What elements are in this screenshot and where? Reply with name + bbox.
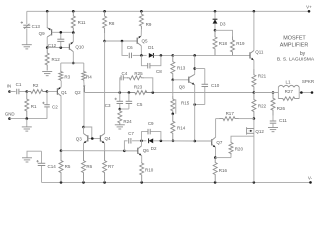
resistor R14 bbox=[171, 114, 175, 141]
node C3 top bbox=[119, 91, 122, 94]
svg-text:R26: R26 bbox=[277, 106, 286, 111]
svg-text:R17: R17 bbox=[226, 111, 235, 116]
wire R4 to Q2 bbox=[83, 81, 85, 87]
resistor R25 bbox=[127, 76, 144, 80]
svg-text:R11: R11 bbox=[78, 20, 86, 25]
wire R8 node to Q5 base bbox=[105, 40, 138, 42]
wire C3-C5 bottom link bbox=[120, 108, 129, 110]
node R14 bottom bbox=[172, 140, 175, 143]
wire D1 to node bbox=[153, 54, 172, 56]
wire to Q1 base bbox=[47, 91, 57, 93]
svg-text:SPKR: SPKR bbox=[302, 79, 315, 84]
svg-text:R9: R9 bbox=[146, 22, 152, 27]
transistor Q5 bbox=[136, 38, 138, 44]
wire Q2 collector down bbox=[83, 92, 85, 127]
resistor R11 bbox=[71, 11, 75, 32]
node Q7 emitter / R16 top bbox=[214, 156, 217, 159]
wire R17 line bbox=[216, 118, 221, 120]
svg-text:Q7: Q7 bbox=[216, 140, 223, 145]
resistor R3 bbox=[59, 71, 63, 82]
svg-text:Q4: Q4 bbox=[104, 136, 111, 141]
node R11 bottom bbox=[72, 31, 75, 34]
svg-text:GND: GND bbox=[5, 112, 15, 117]
wire V- rail bbox=[42, 181, 311, 183]
svg-text:C2: C2 bbox=[52, 105, 58, 110]
node C10 top tap bbox=[193, 67, 196, 70]
capacitor C11 bbox=[272, 116, 274, 121]
resistor R2 bbox=[27, 90, 47, 94]
svg-text:R21: R21 bbox=[258, 73, 267, 78]
wire GND bus bbox=[10, 118, 48, 120]
svg-text:R4: R4 bbox=[86, 74, 92, 79]
wire Q1 collector to R3 bbox=[60, 81, 62, 87]
svg-text:R1: R1 bbox=[31, 104, 37, 109]
svg-text:R5: R5 bbox=[65, 164, 71, 169]
svg-text:R14: R14 bbox=[177, 126, 186, 131]
wire Q8 collector up bbox=[194, 55, 196, 74]
svg-text:C12: C12 bbox=[48, 43, 57, 48]
wire mirror jog bbox=[84, 127, 92, 139]
resistor R22 bbox=[252, 93, 256, 119]
transistor Q12 bbox=[246, 127, 248, 134]
node Q10 collector / R3 R4 split bbox=[72, 62, 75, 65]
node V+ rail junction dots bbox=[46, 10, 49, 13]
node R2-C2-Q1 bbox=[46, 90, 49, 93]
svg-text:V+: V+ bbox=[306, 5, 312, 10]
resistor R20 bbox=[230, 153, 232, 158]
node output junction bbox=[300, 91, 303, 94]
wire tail bias line bbox=[61, 150, 138, 152]
svg-text:C10: C10 bbox=[211, 83, 220, 88]
wire Q10 collector down bbox=[72, 52, 74, 63]
wire Q3-Q4 base link bbox=[88, 138, 101, 140]
node R26 top bbox=[272, 91, 275, 94]
capacitor C9 bypass loop bbox=[142, 132, 148, 141]
capacitor C1 bbox=[16, 89, 18, 95]
node IN terminal bbox=[8, 90, 11, 93]
wire C4-R25 branch bbox=[120, 78, 121, 93]
transistor Q4 bbox=[99, 135, 101, 141]
svg-text:R16: R16 bbox=[219, 168, 228, 173]
wire R20 top to Q12 source bbox=[231, 136, 254, 141]
wire Q9 emitter from V+ bbox=[46, 11, 48, 28]
resistor R17 bbox=[220, 117, 239, 121]
wire C6 to D1 node bbox=[133, 54, 147, 56]
wire Q3 collector up bbox=[83, 127, 85, 134]
wire Q6 collector up bbox=[141, 141, 143, 146]
wire Q6 emitter down bbox=[141, 156, 143, 162]
wire C7 to Q6 node bbox=[132, 140, 146, 142]
resistor R8 bbox=[103, 11, 107, 33]
ground below R12 bbox=[42, 71, 52, 73]
node V+ terminal bbox=[308, 10, 311, 13]
node C12 bottom bbox=[60, 46, 63, 49]
svg-text:Q5: Q5 bbox=[141, 38, 148, 43]
node C3 bottom bbox=[119, 108, 122, 111]
wire Q5 emitter down bbox=[140, 46, 142, 56]
transistor Q6 bbox=[137, 148, 139, 154]
node mirror bases bbox=[91, 137, 94, 140]
node R22 bottom / drain bbox=[253, 117, 256, 120]
ground below R24 bbox=[115, 124, 125, 126]
wire Q10 base link bbox=[47, 47, 69, 49]
resistor R12 bbox=[45, 48, 49, 71]
ground below R1 bbox=[22, 126, 32, 128]
wire Q9 collector down bbox=[46, 37, 48, 48]
svg-text:R22: R22 bbox=[258, 103, 267, 108]
svg-text:R18: R18 bbox=[219, 41, 228, 46]
wire to R4 bbox=[73, 62, 84, 64]
wire R20 bottom link bbox=[215, 157, 231, 159]
resistor R24 bbox=[118, 109, 122, 125]
svg-text:B. S. LAGUISMA: B. S. LAGUISMA bbox=[277, 56, 315, 62]
inductor L1 with R27 box bbox=[277, 87, 279, 99]
resistor R7 bbox=[103, 151, 107, 183]
svg-text:Q8: Q8 bbox=[179, 84, 186, 89]
ground below C11 bbox=[268, 127, 278, 129]
svg-text:C14: C14 bbox=[48, 164, 57, 169]
wire Q12 drain-source column bbox=[253, 119, 255, 183]
node Q1 emitter / R5 top bbox=[60, 149, 63, 152]
resistor R15 bbox=[171, 96, 175, 114]
svg-text:R10: R10 bbox=[145, 167, 154, 172]
wire C6 branch bbox=[122, 41, 128, 55]
resistor R19 bbox=[231, 37, 235, 56]
svg-text:V-: V- bbox=[308, 176, 313, 181]
wire D3 to node bbox=[214, 24, 216, 31]
svg-text:R27: R27 bbox=[285, 89, 294, 94]
svg-text:D1: D1 bbox=[148, 45, 154, 50]
svg-text:C9: C9 bbox=[148, 121, 154, 126]
svg-text:R15: R15 bbox=[181, 101, 190, 106]
svg-text:Q10: Q10 bbox=[75, 44, 84, 49]
node R13 bottom / Q8 base bbox=[172, 79, 175, 82]
node Q7 base bbox=[193, 140, 196, 143]
resistor R4 bbox=[82, 71, 86, 82]
svg-text:R8: R8 bbox=[109, 21, 115, 26]
wire C1 to node bbox=[19, 91, 27, 93]
svg-text:Q11: Q11 bbox=[255, 49, 264, 54]
svg-text:R19: R19 bbox=[236, 41, 245, 46]
node Q2 collector / mirror bbox=[82, 126, 85, 129]
svg-text:C6: C6 bbox=[127, 45, 133, 50]
wire Q7 base bbox=[195, 140, 212, 142]
wire Q8 emitter down bbox=[194, 85, 196, 141]
node SPKR terminal bbox=[311, 91, 314, 94]
node Q6 collector bbox=[140, 140, 143, 143]
svg-text:C8: C8 bbox=[156, 69, 162, 74]
svg-text:C1: C1 bbox=[16, 82, 22, 87]
wire Q10 emitter bbox=[72, 33, 74, 42]
wire R13-R15 link bbox=[172, 80, 174, 96]
node V- rail junction dots bbox=[60, 181, 63, 184]
svg-text:Q12: Q12 bbox=[255, 129, 264, 134]
transistor Q1 bbox=[56, 88, 58, 94]
svg-text:R25: R25 bbox=[134, 71, 143, 76]
wire C10 bottom link bbox=[195, 104, 205, 106]
resistor R26 bbox=[271, 93, 275, 116]
wire Q1 emitter down bbox=[60, 96, 62, 151]
svg-text:AMPLIFIER: AMPLIFIER bbox=[280, 42, 309, 48]
wire R18-R19 top link bbox=[215, 30, 233, 36]
wire output line bbox=[254, 92, 279, 94]
svg-text:R24: R24 bbox=[123, 119, 132, 124]
node C5 top bbox=[128, 91, 131, 94]
wire Q6 base bbox=[124, 150, 137, 152]
svg-text:R23: R23 bbox=[134, 85, 143, 90]
node GND-R1 junction bbox=[26, 117, 29, 120]
wire Q4 emitter down bbox=[104, 143, 106, 151]
svg-text:MOSFET: MOSFET bbox=[283, 35, 306, 41]
diode D2 bbox=[149, 138, 154, 143]
node C1-R2-R1 bbox=[26, 90, 29, 93]
wire C7 branch bbox=[124, 141, 127, 151]
capacitor C13 bbox=[23, 24, 30, 26]
transistor Q9 bbox=[51, 29, 53, 35]
svg-text:C4: C4 bbox=[122, 71, 128, 76]
wire Q7 collector up bbox=[215, 119, 217, 138]
wire Q11 emitter to R21 bbox=[253, 60, 255, 69]
capacitor C14 bbox=[41, 151, 43, 163]
svg-text:C5: C5 bbox=[137, 102, 143, 107]
resistor R16 bbox=[213, 158, 217, 183]
wire R15 trim bracket bbox=[173, 100, 176, 114]
svg-text:R13: R13 bbox=[177, 66, 186, 71]
svg-text:R2: R2 bbox=[33, 83, 39, 88]
wire D3 from rail bbox=[214, 11, 216, 18]
resistor R18 bbox=[213, 30, 217, 55]
svg-text:R20: R20 bbox=[235, 147, 244, 152]
resistor R21 bbox=[252, 69, 256, 93]
wire R8 column down to Q4 bbox=[104, 41, 106, 134]
node D1 anode bbox=[140, 54, 143, 57]
ground near C14 bbox=[22, 157, 32, 159]
node R8 bottom bbox=[103, 40, 106, 43]
wire Q8 base bbox=[173, 79, 189, 81]
wire R1 ground stem bbox=[26, 119, 28, 127]
node V- terminal bbox=[309, 181, 312, 184]
capacitor C2 bbox=[46, 92, 48, 105]
svg-text:C13: C13 bbox=[32, 24, 41, 29]
resistor R10 bbox=[140, 162, 144, 182]
node C6 branch top bbox=[121, 40, 124, 43]
svg-text:R6: R6 bbox=[86, 164, 92, 169]
svg-text:D2: D2 bbox=[151, 146, 157, 151]
resistor R6 bbox=[82, 151, 86, 183]
node Q8 top column bbox=[193, 54, 196, 57]
capacitor C5 bbox=[128, 93, 130, 102]
wire Q11 collector from rail bbox=[253, 11, 255, 50]
resistor R23 bbox=[129, 91, 153, 95]
wire Q7 emitter down bbox=[214, 147, 216, 157]
svg-text:Q2: Q2 bbox=[75, 90, 82, 95]
wire Q3 emitter down bbox=[83, 143, 85, 151]
node Q9 collector bbox=[46, 46, 49, 49]
svg-text:R3: R3 bbox=[64, 74, 70, 79]
svg-text:Q1: Q1 bbox=[61, 90, 68, 95]
capacitor C6 bbox=[128, 53, 130, 59]
wire L1 to SPKR bbox=[299, 92, 312, 94]
capacitor C8 bypass loop bbox=[141, 55, 147, 65]
svg-text:IN: IN bbox=[7, 83, 11, 88]
node C4-R25 right bbox=[152, 91, 155, 94]
node C10 bottom tap bbox=[193, 103, 196, 106]
wire C13 branch bbox=[26, 11, 28, 24]
wire Q9 base bbox=[52, 31, 74, 33]
svg-text:D3: D3 bbox=[220, 21, 226, 26]
svg-text:by: by bbox=[300, 51, 306, 57]
wire IN to C1 bbox=[10, 91, 16, 93]
diode D1 bbox=[149, 53, 154, 58]
wire V+ rail bbox=[27, 10, 309, 12]
svg-text:C7: C7 bbox=[128, 131, 134, 136]
node C12 top bbox=[60, 31, 63, 34]
resistor R13 bbox=[171, 55, 175, 79]
wire R9 to Q5 collector bbox=[140, 29, 142, 36]
svg-text:L1: L1 bbox=[285, 79, 291, 84]
capacitor C4 bbox=[120, 75, 122, 80]
node GND terminal bbox=[8, 117, 11, 120]
capacitor C7 bbox=[128, 138, 130, 144]
wire main bias line to Q11 bbox=[173, 54, 250, 56]
node C7 tap bbox=[123, 150, 126, 153]
transistor Q3 bbox=[87, 135, 89, 141]
node D3 cathode bbox=[214, 29, 217, 32]
node R13 top bbox=[172, 54, 175, 57]
transistor Q7 bbox=[211, 139, 213, 145]
wire to R3 bbox=[61, 62, 74, 64]
resistor R5 bbox=[59, 151, 63, 183]
svg-text:Q9: Q9 bbox=[39, 31, 46, 36]
transistor Q11 bbox=[249, 52, 251, 58]
node C9 right bbox=[160, 140, 163, 143]
svg-text:C11: C11 bbox=[279, 118, 287, 123]
wire D2 to R14 node bbox=[153, 140, 195, 142]
resistor R1 bbox=[25, 92, 29, 119]
node C8 right bbox=[160, 54, 163, 57]
svg-text:C3: C3 bbox=[105, 103, 111, 108]
transistor Q8 bbox=[188, 77, 190, 83]
capacitor C3 bbox=[119, 93, 121, 102]
wire R8 to node bbox=[104, 33, 106, 41]
svg-text:R12: R12 bbox=[52, 57, 61, 62]
wire C14 top bracket bbox=[27, 151, 42, 158]
node output mid bbox=[253, 91, 256, 94]
svg-text:Q3: Q3 bbox=[76, 137, 83, 142]
transistor Q2 bbox=[83, 87, 85, 92]
resistor R9 bbox=[139, 11, 143, 29]
wire C10 top link bbox=[195, 68, 205, 70]
capacitor C12 bbox=[60, 32, 62, 39]
capacitor C10 bbox=[204, 69, 206, 85]
wire mid feedback line bbox=[120, 92, 134, 94]
wire Q2 to feedback line bbox=[85, 92, 120, 94]
svg-text:R7: R7 bbox=[108, 164, 114, 169]
diode D3 bbox=[213, 19, 218, 23]
svg-text:Q6: Q6 bbox=[143, 148, 150, 153]
ground below C13 bbox=[22, 44, 32, 46]
node R15 bottom bbox=[172, 113, 175, 116]
transistor Q10 bbox=[68, 44, 70, 50]
